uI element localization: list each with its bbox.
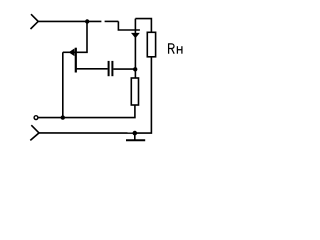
wire drain riser (top rail dot down to T1 drain): [77, 22, 87, 53]
resistor R2 body: [131, 78, 138, 105]
wire capacitor right lead to node: [113, 68, 135, 70]
label Rн (letter н): [177, 46, 182, 54]
resistor R1 (Rн) body: [147, 32, 155, 57]
node junction dot gate/middle rail: [61, 115, 65, 119]
node junction dot at C1/R2/VD1: [133, 67, 137, 71]
wire bridge to R1 top: [135, 19, 151, 33]
transistor T1 (p-channel FET) channel bar: [75, 48, 77, 73]
diode VD1 vertical lead: [134, 19, 136, 78]
output terminal circle: [34, 116, 38, 120]
transistor T1 gate lead: [63, 51, 75, 53]
wire bottom rail: [39, 132, 135, 134]
diode VD1 triangle: [131, 33, 140, 38]
node junction dot on top rail: [85, 19, 89, 23]
ground bar: [126, 139, 145, 141]
wire R2 bottom to middle rail: [38, 105, 135, 118]
capacitor C1 right plate: [111, 61, 113, 76]
wire step from top rail to VD1: [118, 21, 139, 30]
input terminal X1 (top chevron): [31, 14, 39, 29]
wire gate down to middle rail: [62, 52, 64, 117]
input terminal X2 (bottom chevron): [30, 125, 39, 140]
wire R1 bottom down to bottom rail: [135, 57, 152, 133]
wire top rail right segment: [105, 20, 119, 22]
label Rн (letter R): [169, 44, 175, 54]
transistor T1 source lead: [77, 68, 108, 70]
node junction dot bottom rail: [133, 131, 138, 136]
capacitor C1 left plate: [108, 61, 110, 76]
wire top rail left segment: [38, 20, 101, 22]
transistor T1 gate arrow: [69, 49, 75, 57]
ground stub: [134, 133, 136, 140]
